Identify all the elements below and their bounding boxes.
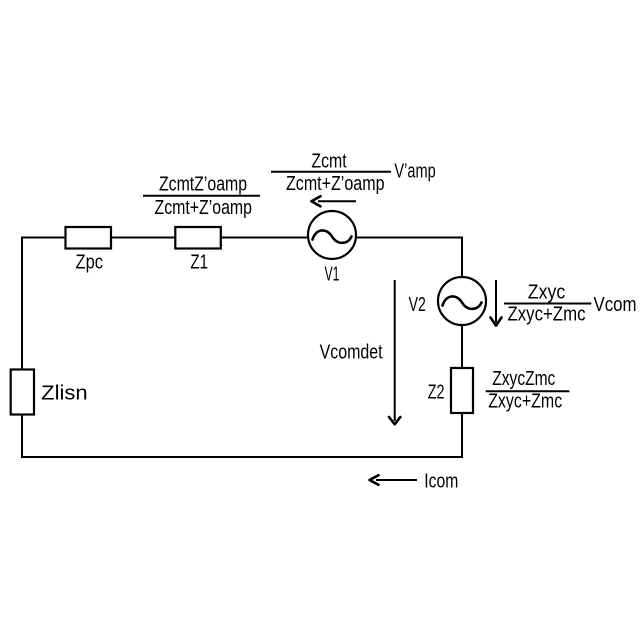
svg-text:Zxyc+Zmc: Zxyc+Zmc <box>488 391 562 413</box>
wire: Zlisn to bottom-left corner <box>21 414 23 459</box>
svg-text:Icom: Icom <box>424 471 458 493</box>
svg-text:Zcmt+Z’oamp: Zcmt+Z’oamp <box>155 197 253 219</box>
svg-text:Z1: Z1 <box>190 252 208 274</box>
svg-text:Zpc: Zpc <box>76 252 104 274</box>
resistor Zpc <box>66 227 112 249</box>
wire: Z2 to bottom-right corner <box>461 412 463 458</box>
wire: Zpc to Z1 <box>110 237 176 239</box>
svg-text:ZxycZmc: ZxycZmc <box>492 368 555 390</box>
wire: top-left corner to Zpc <box>22 237 66 239</box>
svg-text:V1: V1 <box>325 264 340 286</box>
value fraction ZcmtZ'oamp / Zcmt+Z'oamp (for Z1) <box>143 174 260 219</box>
current arrow (left) above V1 <box>312 196 357 206</box>
source V1 <box>308 211 356 259</box>
source V2 <box>438 277 486 325</box>
svg-text:Vcomdet: Vcomdet <box>320 342 383 364</box>
value fraction ZxycZmc / Zxyc+Zmc (for Z2) <box>486 368 570 413</box>
svg-text:Zcmt+Z’oamp: Zcmt+Z’oamp <box>286 173 385 195</box>
svg-text:V’amp: V’amp <box>394 161 435 183</box>
wire: Z1 to V1 <box>220 237 309 239</box>
resistor Zlisn <box>11 370 34 415</box>
voltage arrow Vcomdet (down, center) <box>389 280 400 424</box>
svg-text:Zlisn: Zlisn <box>41 383 87 405</box>
svg-text:Vcom: Vcom <box>594 294 637 316</box>
current arrow Icom (left, below bottom wire) <box>370 475 418 485</box>
wire: right vertical, corner to V2 <box>461 237 463 278</box>
value fraction Zxyc / Zxyc+Zmc (for Vcom) <box>504 281 591 325</box>
wire: bottom <box>21 456 463 458</box>
voltage arrow Vcom (down, right of V2) <box>491 280 502 326</box>
value fraction Zcmt / Zcmt+Z'oamp (for V'amp) <box>271 151 391 196</box>
svg-text:Zxyc: Zxyc <box>528 281 565 303</box>
resistor Z1 <box>175 227 221 249</box>
svg-text:Zcmt: Zcmt <box>311 151 347 173</box>
resistor Z2 <box>451 368 473 413</box>
svg-text:Z2: Z2 <box>428 381 445 403</box>
svg-text:ZcmtZ’oamp: ZcmtZ’oamp <box>159 174 247 196</box>
svg-text:Zxyc+Zmc: Zxyc+Zmc <box>508 304 586 326</box>
wire: V1 to top-right corner <box>356 237 464 239</box>
wire: left vertical, top-left corner to Zlisn <box>21 237 23 371</box>
svg-text:V2: V2 <box>409 294 426 316</box>
wire: V2 to Z2 <box>461 325 463 370</box>
